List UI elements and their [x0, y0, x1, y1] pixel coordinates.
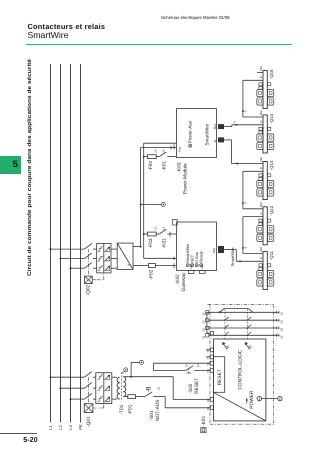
svg-text:Power-Module: Power-Module [182, 163, 188, 194]
svg-text:Y4: Y4 [206, 369, 210, 373]
svg-text:Out: Out [259, 202, 263, 207]
svg-text:-K01: -K01 [161, 238, 167, 248]
svg-text:-Q11: -Q11 [269, 250, 274, 260]
svg-text:21: 21 [145, 386, 149, 390]
svg-text:Y3: Y3 [206, 362, 210, 366]
svg-text:23: 23 [201, 320, 205, 324]
svg-text:In: In [259, 166, 263, 169]
svg-text:CONTROL-LOGIC: CONTROL-LOGIC [238, 349, 244, 390]
svg-text:-F04: -F04 [148, 161, 154, 171]
svg-text:Ready: Ready [199, 251, 204, 263]
svg-text:-Q01: -Q01 [86, 416, 92, 427]
svg-text:Gateway: Gateway [181, 272, 187, 292]
svg-text:24V: 24V [172, 263, 176, 268]
svg-text:In: In [259, 75, 263, 78]
svg-text:In: In [213, 140, 217, 143]
svg-text:RESET: RESET [194, 378, 200, 394]
svg-text:Out: Out [259, 157, 263, 162]
svg-text:RESET: RESET [217, 369, 223, 385]
svg-text:In: In [259, 256, 263, 259]
svg-text:-T01: -T01 [119, 404, 125, 414]
svg-text:24V: 24V [168, 232, 172, 237]
svg-text:-Q15: -Q15 [269, 69, 274, 79]
svg-text:Aux: Aux [178, 147, 182, 153]
svg-text:Circuit de commande pour coupu: Circuit de commande pour coupure dans de… [26, 59, 33, 276]
svg-text:In: In [259, 212, 263, 215]
svg-text:6: 6 [243, 110, 247, 112]
svg-text:23: 23 [153, 149, 157, 153]
svg-text:PE: PE [78, 424, 83, 430]
svg-text:NOT-AUS: NOT-AUS [155, 400, 161, 421]
svg-text:Out: Out [259, 110, 263, 115]
svg-text:A2: A2 [206, 398, 210, 402]
svg-text:Y2: Y2 [206, 348, 210, 352]
svg-text:-Q02: -Q02 [86, 285, 92, 296]
svg-text:A1: A1 [206, 406, 210, 410]
svg-text:SmartWire: SmartWire [204, 123, 209, 145]
svg-text:-F01: -F01 [128, 404, 134, 414]
svg-text:13: 13 [185, 364, 189, 368]
svg-text:Out: Out [259, 247, 263, 252]
svg-text:-K02: -K02 [175, 274, 181, 284]
svg-text:13: 13 [201, 312, 205, 316]
svg-text:14: 14 [161, 227, 165, 231]
svg-text:13: 13 [153, 227, 157, 231]
svg-text:L1: L1 [48, 424, 53, 429]
svg-text:0V: 0V [169, 146, 173, 150]
svg-text:-F03: -F03 [148, 238, 154, 248]
svg-text:34: 34 [280, 328, 284, 332]
svg-text:NET: NET [190, 263, 193, 269]
svg-text:Power-Aux: Power-Aux [188, 120, 193, 143]
svg-text:33: 33 [201, 328, 205, 332]
svg-text:L2: L2 [58, 424, 63, 429]
svg-text:Out: Out [201, 265, 204, 269]
svg-text:5: 5 [232, 121, 236, 123]
svg-text:14: 14 [280, 312, 284, 316]
svg-text:-Q13: -Q13 [269, 160, 274, 170]
svg-text:-F02: -F02 [149, 269, 155, 279]
svg-text:14: 14 [196, 364, 200, 368]
svg-text:-K03: -K03 [176, 162, 182, 172]
svg-text:3: 3 [243, 247, 247, 249]
svg-text:-Q14: -Q14 [269, 113, 274, 123]
svg-text:POWER: POWER [249, 390, 255, 409]
svg-text:~: ~ [120, 246, 123, 251]
svg-text:Y1: Y1 [206, 355, 210, 359]
svg-text:-S02: -S02 [188, 383, 194, 393]
svg-text:42: 42 [280, 335, 284, 339]
svg-text:4: 4 [243, 202, 247, 204]
svg-text:L3: L3 [68, 424, 73, 429]
svg-text:-Q12: -Q12 [269, 205, 274, 215]
svg-text:-K01: -K01 [161, 160, 167, 170]
svg-text:Out: Out [213, 124, 217, 129]
svg-text:22: 22 [156, 386, 160, 390]
svg-text:SmartWire: SmartWire [230, 247, 235, 267]
svg-text:In: In [259, 120, 263, 123]
svg-text:Out: Out [212, 248, 216, 253]
svg-text:41: 41 [201, 335, 205, 339]
svg-text:-K01: -K01 [201, 416, 207, 426]
svg-text:24: 24 [280, 320, 284, 324]
svg-text:-S01: -S01 [149, 410, 155, 420]
svg-text:Out: Out [259, 66, 263, 71]
svg-text:24: 24 [161, 149, 165, 153]
svg-text:0V: 0V [172, 256, 176, 260]
